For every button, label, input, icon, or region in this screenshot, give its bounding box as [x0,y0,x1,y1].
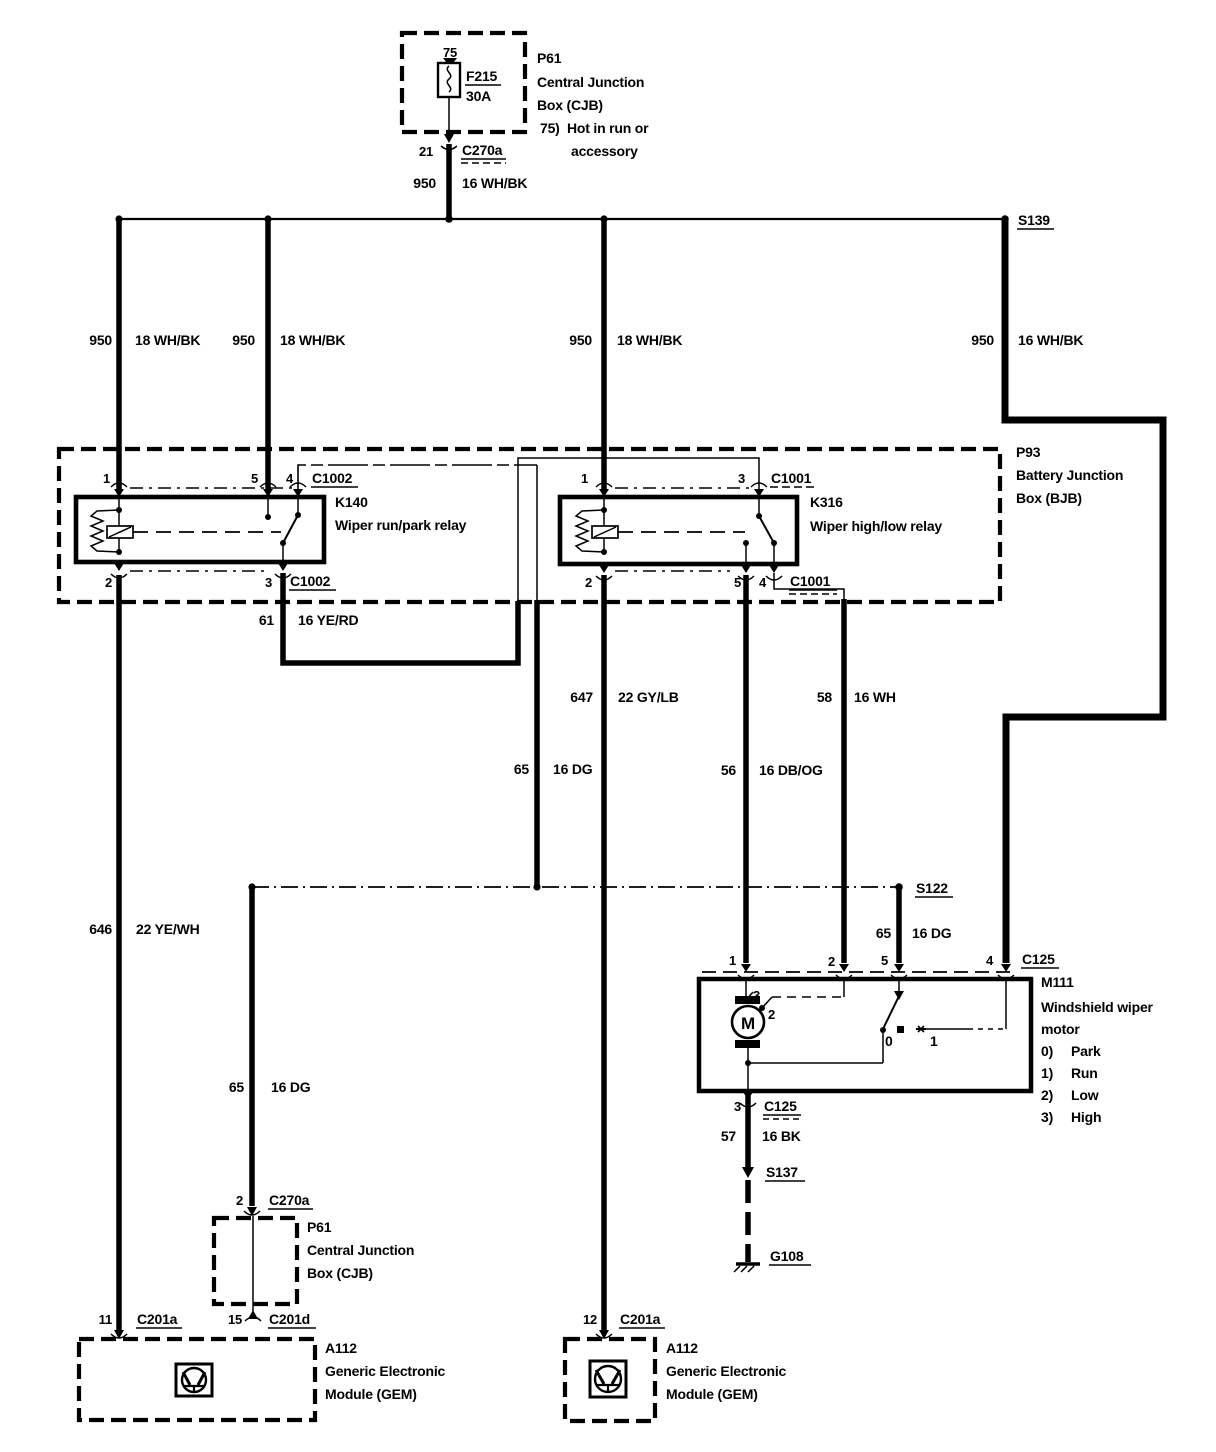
svg-text:5: 5 [251,471,258,486]
K140 pin 5 (top) [251,471,276,497]
connector C201d pin 15 up-arrow [228,1310,316,1328]
svg-text:Park: Park [1071,1043,1101,1059]
svg-text:Generic Electronic: Generic Electronic [325,1363,446,1379]
svg-text:3: 3 [734,1099,741,1114]
svg-text:C1001: C1001 [790,573,831,589]
fuse F215 30A [438,45,501,104]
svg-text:C270a: C270a [462,142,503,158]
label C1001 top [770,470,818,487]
svg-text:58: 58 [817,689,833,705]
svg-text:646: 646 [89,921,112,937]
svg-text:Box (CJB): Box (CJB) [537,97,603,113]
wire contact1 to pin4 inside motor [925,979,1006,1029]
svg-text:15: 15 [228,1312,242,1327]
wire 647 22 GY/LB from K316 pin2 [601,575,607,1331]
svg-text:P61: P61 [537,50,562,66]
svg-text:16 WH/BK: 16 WH/BK [462,175,527,191]
K140 coil winding [91,510,119,552]
svg-text:56: 56 [721,762,737,778]
K140 pin3 stub [282,543,284,562]
label P61 bottom text [307,1219,414,1281]
svg-text:16 WH/BK: 16 WH/BK [1018,332,1083,348]
svg-text:Battery Junction: Battery Junction [1016,467,1123,483]
svg-text:Low: Low [1071,1087,1099,1103]
svg-text:2): 2) [1041,1087,1053,1103]
svg-text:1: 1 [729,953,736,968]
K316 coil armature [592,526,618,538]
bus wire S139 [119,218,1005,220]
label G108 [769,1248,811,1265]
wire 57 16 BK [745,1096,751,1168]
svg-text:30A: 30A [466,88,491,104]
svg-text:65: 65 [514,761,530,777]
wire from K140 pin4 to DG riser [298,465,537,497]
splice S137 [742,1164,805,1181]
svg-text:1): 1) [1041,1065,1053,1081]
svg-text:11: 11 [99,1312,112,1327]
svg-text:C1001: C1001 [771,470,812,486]
K316 coil winding [576,510,604,552]
svg-text:16 BK: 16 BK [762,1128,801,1144]
svg-text:16 DG: 16 DG [912,925,952,941]
svg-text:C201a: C201a [137,1311,178,1327]
K316 control dashed link [618,531,745,533]
svg-text:57: 57 [721,1128,737,1144]
generic electronic module GEM right box [565,1339,655,1421]
connector C270a arrow [419,134,506,163]
switch position 1 contact [916,1026,938,1049]
label A112 GEM right [666,1340,787,1402]
K140 connector C1002 top dashed row [130,487,296,489]
svg-text:S139: S139 [1018,212,1050,228]
svg-text:C1002: C1002 [290,573,331,589]
svg-text:18 WH/BK: 18 WH/BK [280,332,345,348]
svg-text:950: 950 [569,332,592,348]
K316 connector C1001 top dashed row [615,487,755,489]
svg-text:950: 950 [971,332,994,348]
wire motor bottom to switch arm [745,1033,883,1066]
label S122 [915,880,953,897]
K316 pin 3 (top) [738,471,767,497]
K316 coil leg pin1-pin2 [603,497,605,552]
K316 contact pin5 stub [743,540,749,546]
label C125 top [1021,951,1059,968]
svg-text:Box (CJB): Box (CJB) [307,1265,373,1281]
motor terminal 3 label [746,988,760,1003]
svg-text:G108: G108 [770,1248,804,1264]
svg-text:65: 65 [229,1079,245,1095]
svg-text:2: 2 [585,575,592,590]
svg-text:C125: C125 [764,1098,797,1114]
svg-text:Central Junction: Central Junction [307,1242,414,1258]
label A112 GEM left [325,1340,446,1402]
wire 61 16 YE/RD loop from K140 pin3 [283,573,518,663]
wire fuse to connector C270a [448,97,450,133]
relay K316 wiper high/low relay box [560,497,797,564]
svg-text:Windshield wiper: Windshield wiper [1041,999,1154,1015]
label K316 name [810,494,942,534]
svg-text:5: 5 [881,953,888,968]
svg-text:950: 950 [232,332,255,348]
svg-text:P93: P93 [1016,444,1041,460]
svg-text:3: 3 [753,988,760,1003]
wire column 1 (950 18 WH/BK) [116,219,122,489]
label P93 BJB text [1016,444,1123,506]
connector C270a bottom arrow [236,1192,313,1216]
svg-text:12: 12 [583,1312,597,1327]
GEM right icon [590,1361,626,1397]
svg-text:3): 3) [1041,1109,1053,1125]
K316 contact pin3 [758,497,760,516]
svg-text:K316: K316 [810,494,843,510]
wire 58 16 WH from K316 pin4 to motor pin2 [774,573,844,601]
wire 646 22 YE/WH from K140 pin2 to GEM pin11 [116,575,122,1331]
svg-text:16 YE/RD: 16 YE/RD [298,612,358,628]
svg-text:647: 647 [570,689,593,705]
svg-text:950: 950 [413,175,436,191]
K316 switch arm [759,516,774,543]
svg-text:16 DG: 16 DG [271,1079,311,1095]
motor pin 4 arrow [986,953,1014,979]
wire 65 16 DG S122 to motor pin5 [896,887,902,963]
ground G108 symbol [734,1264,760,1272]
motor pin 2 arrow [828,954,852,979]
svg-text:F215: F215 [466,68,498,84]
K140 switch arm [283,515,298,543]
svg-text:22 YE/WH: 22 YE/WH [136,921,200,937]
windshield wiper motor M111 box [699,979,1031,1091]
label P61 CJB text [537,50,649,159]
battery junction box P93 (dashed) [59,449,1000,602]
K140 coil leg pin1-pin2 [118,497,120,552]
svg-text:motor: motor [1041,1021,1080,1037]
svg-text:High: High [1071,1109,1101,1125]
wire column 2 (950 18 WH/BK) [265,219,271,489]
svg-text:A112: A112 [325,1340,357,1356]
connector C201a pin 12 arrow [583,1311,665,1339]
label C1002 top [311,470,358,487]
K316 pin 4 (bottom) [759,565,782,590]
wire 56 16 DB/OG from K316 pin5 to motor pin1 [743,575,749,963]
svg-text:1: 1 [103,471,110,486]
wire column 4 (950 16 WH/BK) to motor pin 4 [1005,219,1163,963]
svg-text:S122: S122 [916,880,948,896]
label K140 name [335,494,467,533]
svg-text:75: 75 [443,45,457,60]
motor terminal 2 link to pin2 [759,979,844,1022]
svg-text:3: 3 [265,575,272,590]
switch position 0 contact [885,1026,904,1049]
svg-text:4: 4 [286,471,294,486]
label C1001 bottom [789,573,837,594]
svg-text:21: 21 [419,144,433,159]
K316 pin 2 (bottom) [585,565,612,590]
motor pin 3 bottom connector C125 [734,1092,801,1119]
svg-text:2: 2 [828,954,835,969]
svg-text:Generic Electronic: Generic Electronic [666,1363,787,1379]
K316 pin 5 (bottom) [734,565,754,590]
wire column 3 (950 18 WH/BK) [601,219,607,489]
K140 coil armature [107,526,133,538]
wire 65 16 DG riser (thick) to S122 [534,600,540,887]
svg-text:A112: A112 [666,1340,698,1356]
svg-text:0: 0 [885,1033,893,1049]
svg-text:accessory: accessory [571,143,638,159]
label C1002 bottom [289,573,336,590]
relay K140 wiper run/park relay box [76,497,324,562]
K140 contact pin4 [297,497,299,515]
svg-text:M: M [741,1014,755,1033]
svg-text:4: 4 [759,575,767,590]
svg-text:Central Junction: Central Junction [537,74,644,90]
svg-text:2: 2 [768,1007,775,1022]
central junction box P61 (top, dashed) [402,33,525,132]
label S139 [1017,212,1054,229]
svg-text:M111: M111 [1041,974,1074,990]
motor pin 5 arrow [881,953,907,979]
svg-text:16 DG: 16 DG [553,761,593,777]
K316 pin4 stub [773,543,775,564]
svg-text:C201d: C201d [269,1311,310,1327]
svg-text:18 WH/BK: 18 WH/BK [135,332,200,348]
K140 pin 2 (bottom) [105,563,127,590]
svg-text:65: 65 [876,925,892,941]
svg-text:Box (BJB): Box (BJB) [1016,490,1082,506]
svg-text:4: 4 [986,953,994,968]
GEM left icon [176,1364,212,1396]
svg-text:K140: K140 [335,494,368,510]
svg-text:18 WH/BK: 18 WH/BK [617,332,682,348]
svg-text:C1002: C1002 [312,470,353,486]
svg-text:2: 2 [236,1193,243,1208]
dashed ground wire [745,1180,751,1262]
motor M symbol [732,979,764,1091]
K140 pin 3 (bottom) [265,563,291,590]
label M111 text block [1041,974,1154,1125]
motor connector C125 dashed row [702,971,1012,973]
svg-text:75) Hot in run or: 75) Hot in run or [540,120,649,136]
svg-text:C125: C125 [1022,951,1055,967]
motor pin 1 arrow [729,953,754,979]
junction dot bus col2 [264,215,271,222]
K140 connector C1002 bottom dashed row [130,570,265,572]
svg-text:2: 2 [105,575,112,590]
svg-text:16 WH: 16 WH [854,689,896,705]
connector C201a pin 11 arrow [99,1311,182,1339]
svg-text:Module (GEM): Module (GEM) [666,1386,758,1402]
svg-text:1: 1 [930,1033,938,1049]
K316 connector C1001 bottom dashed row [615,570,730,572]
junction dot bus right S139 [1001,215,1009,223]
motor park switch [880,979,904,1033]
central junction box P61 (bottom, dashed) [214,1218,297,1304]
svg-text:950: 950 [89,332,112,348]
wire 61 thin riser to K316 pin3 [518,458,759,602]
wire 950 16 WH/BK (fuse feed) [446,144,452,221]
K316 pin 1 (top) [581,471,612,497]
svg-text:1: 1 [581,471,588,486]
svg-text:16 DB/OG: 16 DB/OG [759,762,823,778]
svg-text:3: 3 [738,471,745,486]
svg-text:S137: S137 [766,1164,798,1180]
junction dot bus fuse [445,215,453,223]
svg-text:61: 61 [259,612,275,628]
wire 65 16 DG S122 left branch down to CJB [249,887,255,1206]
svg-text:Module (GEM): Module (GEM) [325,1386,417,1402]
K140 contact pin5 [267,497,269,517]
svg-text:C201a: C201a [620,1311,661,1327]
generic electronic module GEM left box [79,1339,315,1420]
K140 control dashed link [133,531,281,533]
svg-text:P61: P61 [307,1219,332,1235]
K140 pin 4 (top) [286,471,306,497]
svg-text:Wiper run/park relay: Wiper run/park relay [335,517,467,533]
K140 pin 1 (top) [103,471,127,497]
svg-text:C270a: C270a [269,1192,310,1208]
wire through P61 [252,1216,254,1311]
splice S122 dash-dot rail [252,886,899,888]
junction dot bus-left [115,215,122,222]
svg-text:Wiper high/low relay: Wiper high/low relay [810,518,942,534]
svg-text:0): 0) [1041,1043,1053,1059]
svg-text:22 GY/LB: 22 GY/LB [618,689,679,705]
junction dot bus col3 [600,215,607,222]
svg-text:Run: Run [1071,1065,1098,1081]
